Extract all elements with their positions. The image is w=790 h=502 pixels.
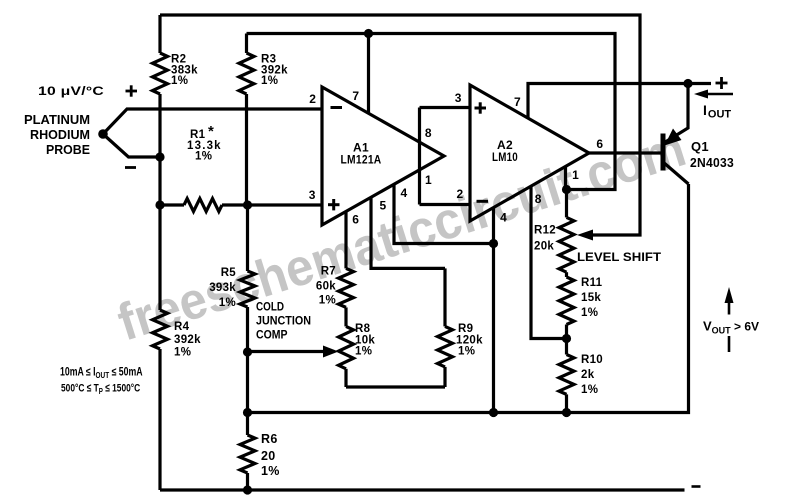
svg-text:R12: R12	[534, 225, 556, 237]
svg-text:1%: 1%	[261, 464, 280, 478]
minus terminal bottom right	[692, 485, 701, 488]
svg-text:392k: 392k	[174, 334, 201, 346]
node emitter junction on positive rail	[683, 79, 692, 88]
svg-text:393k: 393k	[209, 282, 236, 294]
svg-text:1%: 1%	[458, 346, 475, 358]
node A2 pin1 / R12 top	[562, 185, 571, 194]
wire second rail from R3 top to A2 pin1 node	[247, 34, 616, 190]
node probe junction	[98, 129, 108, 139]
svg-text:10 μV/°C: 10 μV/°C	[38, 84, 104, 98]
svg-text:R6: R6	[261, 432, 278, 446]
node pin7/second rail	[364, 29, 373, 38]
wire A1 pin 3 input	[248, 203, 323, 206]
svg-text:7: 7	[514, 95, 521, 109]
svg-text:15k: 15k	[581, 292, 601, 304]
svg-text:8: 8	[425, 126, 432, 140]
svg-text:2k: 2k	[581, 369, 595, 381]
wire A2 pin 4 vertical	[492, 208, 495, 413]
arrowhead cold junction (points right at R8)	[323, 346, 339, 358]
svg-text:6: 6	[352, 213, 359, 227]
svg-text:1%: 1%	[261, 75, 278, 87]
svg-text:60k: 60k	[316, 281, 336, 293]
svg-text:1%: 1%	[319, 295, 336, 307]
A1 minus symbol	[331, 106, 343, 109]
node R6 bottom on negative rail	[243, 485, 252, 494]
svg-text:8: 8	[535, 192, 542, 206]
svg-text:R4: R4	[174, 321, 190, 333]
svg-text:1%: 1%	[581, 384, 598, 396]
svg-text:7: 7	[352, 89, 359, 103]
wire R7-R8 link	[344, 307, 347, 326]
op-amp A1 LM121A triangle	[322, 87, 444, 225]
wire mid rail (Q1 collector to R6 node)	[248, 184, 689, 413]
wire A2 output pin 6 to Q1 base	[589, 151, 662, 154]
resistor R5 393k 1%	[246, 205, 249, 271]
wire R8/R9 bottom link	[346, 385, 445, 388]
svg-text:VOUT > 6V: VOUT > 6V	[703, 319, 759, 336]
resistor R9 120k 1%	[443, 268, 446, 326]
probe plus sign	[126, 90, 138, 93]
svg-text:R9: R9	[458, 323, 473, 335]
svg-text:*: *	[208, 123, 214, 140]
wire A1 pin8-pin1 vertical and stubs to A2 inputs	[418, 108, 421, 205]
op-amp A2 LM10 triangle	[470, 85, 589, 221]
resistor R1 13.3k 1%	[184, 199, 222, 212]
node R5 bottom cold junction tap	[243, 347, 252, 356]
arrowhead R12 wiper (points left at R12)	[577, 230, 593, 241]
resistor R11 15k 1%	[565, 272, 568, 277]
svg-text:R11: R11	[581, 277, 603, 289]
svg-text:20k: 20k	[534, 241, 554, 253]
wire bottom negative rail	[160, 488, 685, 491]
node A2 pin4 on mid rail	[489, 408, 498, 417]
svg-text:2N4033: 2N4033	[690, 155, 734, 170]
wire probe plus lead to A1 pin 2	[103, 109, 322, 134]
resistor R10 2k 1%	[565, 339, 568, 355]
node R1 right / R3 / R5 / A1 pin3	[243, 200, 252, 209]
transistor Q1 2N4033 base bar	[661, 134, 666, 171]
arrow IOUT	[706, 93, 733, 96]
svg-text:PROBE: PROBE	[46, 142, 90, 157]
potentiometer R12 20k	[565, 190, 568, 218]
svg-text:1%: 1%	[195, 151, 212, 163]
svg-text:JUNCTION: JUNCTION	[256, 314, 311, 328]
svg-text:1: 1	[572, 168, 579, 182]
svg-text:6: 6	[596, 137, 603, 151]
resistor R8 10k 1%	[339, 326, 354, 368]
probe minus sign	[125, 166, 136, 169]
Q1 emitter with arrow	[665, 84, 689, 143]
svg-text:20: 20	[261, 449, 276, 463]
A2 minus symbol	[477, 200, 489, 203]
svg-text:1%: 1%	[581, 307, 598, 319]
svg-text:R5: R5	[221, 267, 237, 279]
svg-text:R8: R8	[355, 323, 371, 335]
wire top rail from R2 top to R12 wiper feed	[160, 15, 640, 235]
wire A2 pin 1 down to node	[564, 167, 567, 190]
resistor R7 60k 1%	[339, 268, 354, 307]
wire A1 pin 4 to A2 pin 4 node	[394, 184, 494, 244]
resistor R6 20 1%	[240, 435, 255, 473]
A2 plus symbol	[475, 107, 487, 110]
svg-text:PLATINUM: PLATINUM	[24, 112, 90, 127]
svg-text:3: 3	[455, 91, 462, 105]
svg-text:R10: R10	[581, 354, 603, 366]
wire A2 pin 7 to positive rail	[528, 84, 711, 119]
node R1 left	[155, 200, 164, 209]
resistor R4 392k 1%	[158, 157, 161, 310]
resistor R2 383k 1%	[158, 15, 161, 53]
svg-text:R7: R7	[321, 266, 336, 278]
plus terminal top right	[716, 82, 728, 85]
svg-text:2: 2	[457, 187, 464, 201]
svg-text:1%: 1%	[219, 297, 236, 309]
svg-text:RHODIUM: RHODIUM	[30, 127, 90, 142]
node A1 pin4 / A2 pin4	[489, 239, 498, 248]
svg-text:1%: 1%	[355, 346, 372, 358]
svg-text:3: 3	[309, 188, 316, 202]
wire probe minus lead	[103, 134, 160, 157]
svg-text:LEVEL SHIFT: LEVEL SHIFT	[577, 250, 662, 264]
svg-text:Q1: Q1	[691, 139, 709, 154]
wire A1 pin 6 down	[344, 212, 347, 269]
node R10 bottom on mid rail	[562, 408, 571, 417]
Q1 collector	[663, 162, 689, 184]
arrow VOUT up	[728, 300, 731, 315]
node mid rail at R5/R6 vertical	[243, 408, 252, 417]
svg-text:4: 4	[401, 186, 408, 200]
svg-text:1%: 1%	[171, 75, 188, 87]
wire A1 pin 7 up to second rail	[367, 34, 370, 115]
svg-text:LM10: LM10	[492, 150, 518, 164]
wire A2 pin 8 to R11/R10 node	[531, 187, 567, 339]
svg-text:1%: 1%	[174, 347, 191, 359]
A1 plus symbol	[328, 203, 340, 206]
svg-text:2: 2	[309, 92, 316, 106]
resistor R3 392k 1%	[245, 34, 248, 54]
wire cold junction comp arrow	[248, 350, 327, 353]
svg-text:5: 5	[380, 199, 387, 213]
node R11/R10/A2pin8	[562, 334, 571, 343]
svg-text:COLD: COLD	[256, 300, 284, 314]
node minus lead to R2/R4 vertical	[155, 152, 164, 161]
svg-text:4: 4	[500, 211, 507, 225]
svg-text:LM121A: LM121A	[341, 153, 382, 167]
svg-text:1: 1	[425, 173, 432, 187]
svg-text:COMP: COMP	[256, 328, 288, 342]
wire A1 pin 5 to R9 top	[371, 198, 445, 269]
